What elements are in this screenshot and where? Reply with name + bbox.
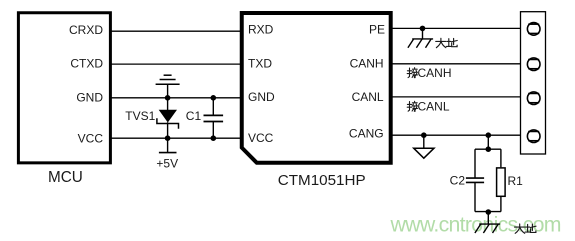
svg-text:VCC: VCC — [78, 131, 104, 145]
svg-text:CANG: CANG — [349, 127, 384, 141]
svg-text:CANH: CANH — [418, 66, 452, 80]
svg-text:CTXD: CTXD — [70, 57, 103, 71]
svg-text:TXD: TXD — [248, 57, 272, 71]
svg-text:CRXD: CRXD — [69, 23, 103, 37]
svg-text:GND: GND — [76, 90, 103, 104]
svg-text:VCC: VCC — [248, 131, 274, 145]
svg-text:CANL: CANL — [418, 100, 450, 114]
svg-text:C2: C2 — [450, 173, 466, 187]
svg-text:CANL: CANL — [352, 90, 384, 104]
svg-text:CTM1051HP: CTM1051HP — [278, 172, 366, 189]
svg-text:GND: GND — [248, 90, 275, 104]
svg-text:MCU: MCU — [48, 169, 83, 186]
svg-text:RXD: RXD — [248, 23, 274, 37]
svg-text:TVS1: TVS1 — [125, 109, 155, 123]
svg-text:+5V: +5V — [156, 156, 178, 170]
svg-text:CANH: CANH — [350, 57, 384, 71]
svg-text:R1: R1 — [508, 174, 524, 188]
svg-text:PE: PE — [369, 22, 385, 36]
svg-text:C1: C1 — [186, 109, 202, 123]
